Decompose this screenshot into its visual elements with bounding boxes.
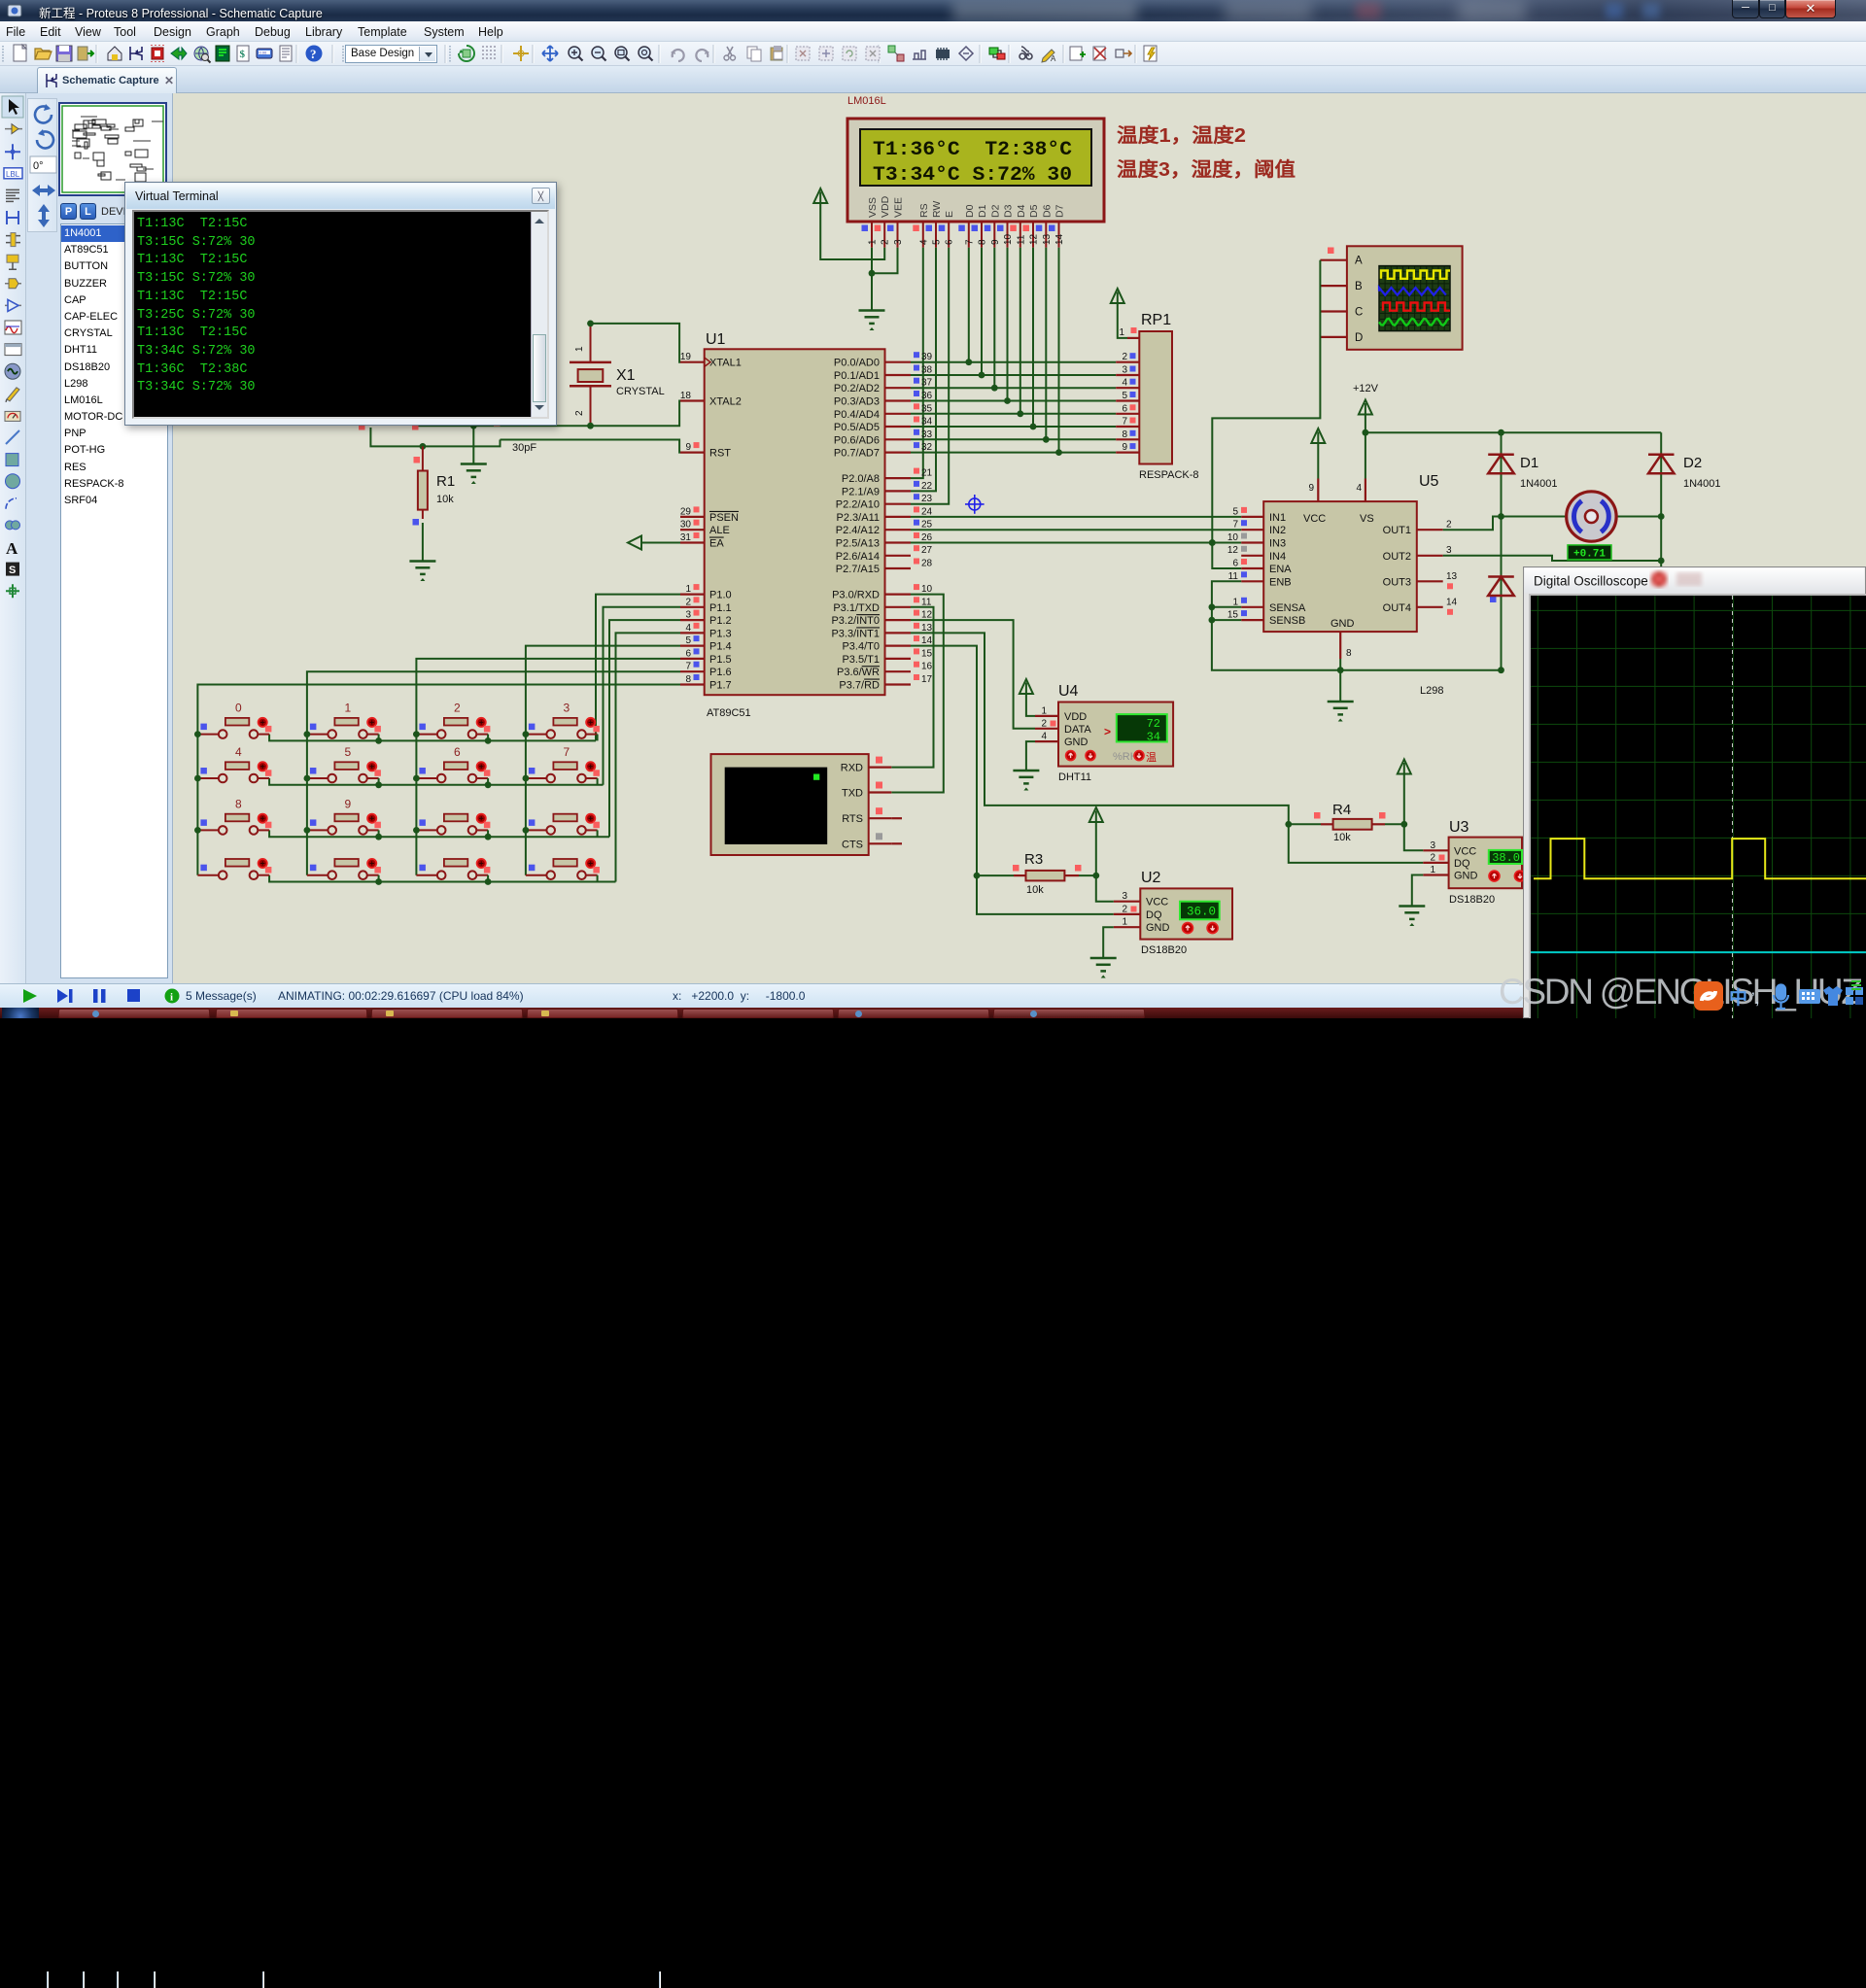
svg-text:D2: D2 — [1683, 455, 1702, 471]
svg-text:AT89C51: AT89C51 — [707, 707, 751, 719]
svg-text:GND: GND — [1146, 922, 1170, 934]
svg-text:VCC: VCC — [1146, 897, 1168, 908]
svg-text:RXD: RXD — [841, 763, 863, 774]
svg-text:P3.4/T0: P3.4/T0 — [842, 641, 880, 653]
svg-text:RS: RS — [918, 203, 930, 218]
svg-text:10: 10 — [1227, 532, 1239, 543]
svg-text:37: 37 — [921, 378, 933, 389]
svg-text:1: 1 — [685, 584, 691, 595]
svg-text:1: 1 — [868, 239, 879, 245]
svg-text:7: 7 — [564, 745, 570, 759]
svg-text:SENSA: SENSA — [1269, 602, 1306, 614]
svg-text:6: 6 — [1232, 559, 1238, 569]
svg-text:i: i — [170, 992, 173, 1004]
svg-text:35: 35 — [921, 403, 933, 414]
svg-text:’,: ’, — [1751, 989, 1760, 1008]
svg-text:VCC: VCC — [1303, 513, 1326, 525]
svg-text:10: 10 — [1003, 233, 1014, 245]
svg-text:11: 11 — [921, 597, 932, 607]
svg-text:P1.3: P1.3 — [709, 628, 732, 639]
svg-text:U4: U4 — [1058, 683, 1079, 700]
svg-text:15: 15 — [921, 648, 933, 659]
svg-text:P0.0/AD0: P0.0/AD0 — [834, 358, 880, 369]
svg-text:P0.2/AD2: P0.2/AD2 — [834, 383, 880, 394]
svg-text:OUT4: OUT4 — [1383, 602, 1411, 614]
svg-text:3: 3 — [1122, 891, 1127, 902]
svg-text:T3:34°C S:72% 30: T3:34°C S:72% 30 — [873, 164, 1072, 187]
svg-text:P2.1/A9: P2.1/A9 — [842, 486, 880, 497]
svg-text:P3.5/T1: P3.5/T1 — [842, 654, 880, 666]
svg-text:2: 2 — [454, 702, 461, 715]
svg-text:27: 27 — [921, 545, 933, 556]
svg-text:温度3，湿度，阈值: 温度3，湿度，阈值 — [1117, 157, 1296, 181]
svg-text:4: 4 — [235, 745, 242, 759]
svg-text:P1.2: P1.2 — [709, 615, 732, 627]
svg-text:2: 2 — [1446, 520, 1452, 531]
svg-text:T1:36°C T2:38°C: T1:36°C T2:38°C — [873, 139, 1072, 161]
svg-text:ENA: ENA — [1269, 564, 1292, 575]
svg-text:1: 1 — [1232, 597, 1238, 607]
svg-text:5: 5 — [345, 745, 352, 759]
svg-text:26: 26 — [921, 532, 933, 543]
svg-text:DHT11: DHT11 — [1058, 771, 1091, 783]
svg-text:L298: L298 — [1420, 685, 1443, 697]
svg-text:10: 10 — [921, 584, 933, 595]
svg-text:2: 2 — [1041, 718, 1047, 729]
svg-text:34: 34 — [921, 417, 933, 428]
svg-text:23: 23 — [921, 494, 933, 504]
svg-text:1: 1 — [1122, 917, 1127, 928]
svg-text:D7: D7 — [1054, 204, 1066, 218]
svg-text:LM016L: LM016L — [847, 95, 886, 107]
svg-text:IN3: IN3 — [1269, 538, 1286, 550]
svg-text:P2.5/A13: P2.5/A13 — [836, 538, 880, 550]
svg-text:2: 2 — [574, 410, 585, 416]
svg-text:0°: 0° — [33, 160, 44, 172]
svg-text:P2.2/A10: P2.2/A10 — [836, 499, 880, 511]
svg-text:C: C — [1355, 307, 1363, 319]
svg-text:LBL: LBL — [6, 170, 20, 179]
svg-text:A: A — [6, 539, 18, 558]
svg-text:17: 17 — [921, 674, 933, 685]
svg-text:38: 38 — [921, 365, 933, 376]
svg-text:VDD: VDD — [1064, 711, 1087, 723]
svg-text:P2.3/A11: P2.3/A11 — [837, 512, 880, 524]
svg-text:D4: D4 — [1016, 204, 1027, 218]
svg-text:8: 8 — [235, 797, 242, 810]
svg-text:VCC: VCC — [1454, 845, 1476, 857]
svg-text:30: 30 — [680, 520, 692, 531]
svg-text:2: 2 — [1122, 352, 1127, 362]
svg-text:P1.0: P1.0 — [709, 590, 732, 601]
svg-text:U2: U2 — [1141, 870, 1161, 886]
svg-text:D1: D1 — [1520, 455, 1538, 471]
svg-text:8: 8 — [685, 674, 691, 685]
svg-text:R4: R4 — [1332, 802, 1351, 818]
svg-text:P0.4/AD4: P0.4/AD4 — [834, 409, 880, 421]
svg-text:10k: 10k — [1026, 884, 1044, 896]
svg-text:P1.7: P1.7 — [709, 680, 732, 692]
svg-text:1: 1 — [574, 346, 585, 352]
svg-text:PSEN: PSEN — [709, 512, 739, 524]
svg-text:P0.7/AD7: P0.7/AD7 — [834, 448, 880, 460]
svg-text:VSS: VSS — [867, 197, 879, 218]
svg-text:P3.7/RD: P3.7/RD — [839, 680, 880, 692]
svg-text:$: $ — [240, 49, 246, 60]
svg-text:7: 7 — [685, 662, 691, 672]
svg-text:D1: D1 — [977, 204, 988, 218]
svg-text:D3: D3 — [1003, 204, 1015, 218]
svg-text:0.00: 0.00 — [259, 51, 268, 55]
svg-text:5: 5 — [1232, 506, 1238, 517]
svg-text:9: 9 — [990, 239, 1001, 245]
svg-text:VDD: VDD — [880, 195, 891, 218]
svg-text:SENSB: SENSB — [1269, 615, 1305, 627]
svg-text:?: ? — [310, 47, 317, 61]
svg-text:1: 1 — [1119, 327, 1124, 338]
svg-text:P3.2/INT0: P3.2/INT0 — [831, 615, 880, 627]
svg-text:12: 12 — [1029, 233, 1040, 245]
svg-text:1N4001: 1N4001 — [1683, 478, 1721, 490]
svg-text:3: 3 — [685, 610, 691, 621]
svg-text:25: 25 — [921, 520, 933, 531]
svg-text:39: 39 — [921, 352, 933, 362]
svg-text:6: 6 — [685, 648, 691, 659]
svg-text:RP1: RP1 — [1141, 312, 1171, 328]
svg-text:P0.3/AD3: P0.3/AD3 — [834, 396, 880, 408]
svg-text:1: 1 — [1430, 865, 1435, 875]
svg-text:2: 2 — [1122, 904, 1127, 914]
svg-text:Digital Oscilloscope: Digital Oscilloscope — [1534, 574, 1648, 589]
svg-text:OUT1: OUT1 — [1383, 525, 1411, 536]
svg-text:RST: RST — [709, 448, 731, 460]
svg-text:7: 7 — [1122, 417, 1127, 428]
svg-text:DS18B20: DS18B20 — [1449, 894, 1495, 906]
svg-text:D: D — [1355, 332, 1363, 344]
svg-text:P0.1/AD1: P0.1/AD1 — [834, 370, 880, 382]
svg-text:28: 28 — [921, 559, 933, 569]
svg-text:P3.1/TXD: P3.1/TXD — [833, 602, 880, 614]
svg-text:P1.5: P1.5 — [709, 654, 732, 666]
svg-text:10k: 10k — [1333, 832, 1351, 843]
svg-text:RTS: RTS — [842, 813, 863, 825]
svg-text:14: 14 — [1446, 597, 1458, 607]
svg-text:ENB: ENB — [1269, 576, 1292, 588]
svg-text:中: 中 — [1729, 986, 1747, 1009]
svg-text:2: 2 — [685, 597, 691, 607]
svg-text:3: 3 — [1122, 365, 1127, 376]
svg-text:3: 3 — [1446, 545, 1452, 556]
svg-text:21: 21 — [921, 468, 933, 479]
svg-text:4: 4 — [918, 239, 929, 245]
svg-text:38.0: 38.0 — [1492, 851, 1520, 865]
svg-text:12: 12 — [1227, 545, 1239, 556]
svg-text:8: 8 — [1346, 648, 1352, 659]
svg-text:24: 24 — [921, 506, 933, 517]
svg-text:3: 3 — [564, 702, 570, 715]
svg-text:DQ: DQ — [1146, 909, 1162, 921]
svg-text:P3.3/INT1: P3.3/INT1 — [831, 628, 880, 639]
svg-text:34: 34 — [1147, 731, 1160, 744]
svg-text:13: 13 — [1446, 571, 1458, 582]
svg-text:P3.6/WR: P3.6/WR — [837, 667, 880, 678]
svg-text:P2.6/A14: P2.6/A14 — [836, 551, 880, 563]
svg-text:CTS: CTS — [842, 839, 863, 850]
svg-text:TXD: TXD — [842, 788, 863, 800]
svg-text:P3.0/RXD: P3.0/RXD — [832, 590, 880, 601]
svg-text:31: 31 — [680, 532, 692, 543]
svg-text:36: 36 — [921, 391, 933, 401]
svg-text:XTAL1: XTAL1 — [709, 358, 742, 369]
svg-text:11: 11 — [1016, 234, 1026, 245]
svg-text:2: 2 — [881, 239, 891, 245]
svg-text:8: 8 — [978, 239, 988, 245]
svg-text:7: 7 — [964, 239, 975, 245]
svg-text:13: 13 — [921, 623, 933, 634]
svg-text:U1: U1 — [706, 331, 726, 348]
svg-text:GND: GND — [1330, 618, 1355, 630]
svg-text:4: 4 — [685, 623, 691, 634]
svg-text:OUT3: OUT3 — [1383, 576, 1411, 588]
svg-text:5: 5 — [685, 635, 691, 646]
svg-text:4: 4 — [1356, 483, 1362, 494]
svg-text:GND: GND — [1454, 871, 1478, 882]
svg-text:S: S — [9, 565, 16, 576]
svg-text:D2: D2 — [989, 204, 1001, 218]
svg-text:温: 温 — [1146, 751, 1157, 764]
svg-text:29: 29 — [680, 506, 692, 517]
svg-text:DATA: DATA — [1064, 724, 1091, 736]
svg-text:8: 8 — [1122, 429, 1127, 440]
svg-text:R3: R3 — [1024, 851, 1043, 868]
svg-text:RESPACK-8: RESPACK-8 — [1139, 469, 1199, 481]
svg-text:9: 9 — [685, 442, 691, 453]
svg-text:P0.6/AD6: P0.6/AD6 — [834, 434, 880, 446]
svg-text:5: 5 — [932, 239, 943, 245]
svg-text:14: 14 — [1054, 233, 1065, 245]
svg-text:IN1: IN1 — [1269, 512, 1286, 524]
svg-text:4: 4 — [1041, 732, 1047, 742]
svg-text:+0.71: +0.71 — [1573, 549, 1606, 561]
svg-text:B: B — [1355, 281, 1363, 292]
svg-text:DQ: DQ — [1454, 858, 1470, 870]
svg-text:12: 12 — [921, 610, 933, 621]
svg-text:2: 2 — [1430, 852, 1435, 863]
svg-text:DS18B20: DS18B20 — [1141, 944, 1187, 956]
svg-text:IN4: IN4 — [1269, 551, 1286, 563]
svg-text:16: 16 — [921, 662, 933, 672]
svg-text:+12V: +12V — [1353, 383, 1379, 394]
svg-text:22: 22 — [921, 481, 933, 492]
svg-text:3: 3 — [1430, 840, 1435, 851]
svg-text:1: 1 — [345, 702, 352, 715]
svg-text:5: 5 — [1122, 391, 1127, 401]
svg-text:U5: U5 — [1419, 473, 1439, 490]
svg-text:15: 15 — [1227, 610, 1239, 621]
svg-text:4: 4 — [1122, 378, 1127, 389]
svg-text:13: 13 — [1042, 233, 1053, 245]
svg-text:1: 1 — [1041, 705, 1047, 716]
svg-text:19: 19 — [680, 352, 692, 362]
svg-text:GND: GND — [1064, 737, 1088, 748]
svg-text:7: 7 — [1232, 520, 1238, 531]
svg-text:P1.1: P1.1 — [709, 602, 732, 614]
svg-text:3: 3 — [893, 239, 904, 245]
svg-text:D5: D5 — [1028, 204, 1040, 218]
svg-text:6: 6 — [454, 745, 461, 759]
svg-text:A: A — [1051, 54, 1056, 63]
svg-text:36.0: 36.0 — [1187, 906, 1216, 919]
svg-text:XTAL2: XTAL2 — [709, 396, 742, 408]
svg-text:1N4001: 1N4001 — [1520, 478, 1558, 490]
svg-text:11: 11 — [1228, 571, 1239, 582]
svg-text:P2.0/A8: P2.0/A8 — [842, 473, 880, 485]
svg-text:14: 14 — [921, 635, 933, 646]
svg-text:CRYSTAL: CRYSTAL — [616, 386, 665, 397]
svg-text:X1: X1 — [616, 367, 636, 384]
svg-text:P2.7/A15: P2.7/A15 — [836, 564, 880, 575]
svg-text:33: 33 — [921, 429, 933, 440]
svg-text:9: 9 — [1308, 483, 1314, 494]
svg-text:OUT2: OUT2 — [1383, 551, 1411, 563]
svg-text:>: > — [1104, 725, 1111, 738]
svg-text:E: E — [944, 211, 955, 218]
svg-text:P1.4: P1.4 — [709, 641, 732, 653]
svg-text:0: 0 — [235, 702, 242, 715]
svg-text:D6: D6 — [1041, 204, 1053, 218]
svg-text:R1: R1 — [436, 473, 455, 490]
svg-text:6: 6 — [945, 239, 955, 245]
svg-text:EA: EA — [709, 538, 724, 550]
svg-text:P1.6: P1.6 — [709, 667, 732, 678]
svg-text:VS: VS — [1360, 513, 1374, 525]
svg-text:6: 6 — [1122, 403, 1127, 414]
svg-text:P2.4/A12: P2.4/A12 — [836, 525, 880, 536]
svg-text:9: 9 — [345, 797, 352, 810]
svg-text:30pF: 30pF — [512, 442, 536, 454]
svg-text:A: A — [1355, 256, 1363, 267]
svg-text:VEE: VEE — [893, 197, 905, 218]
svg-text:9: 9 — [1122, 442, 1127, 453]
svg-text:ALE: ALE — [709, 525, 730, 536]
svg-text:D0: D0 — [964, 204, 976, 218]
svg-text:U3: U3 — [1449, 819, 1469, 836]
svg-text:72: 72 — [1147, 717, 1160, 731]
svg-text:32: 32 — [921, 442, 933, 453]
svg-text:10k: 10k — [436, 494, 454, 505]
svg-text:IN2: IN2 — [1269, 525, 1286, 536]
svg-text:P0.5/AD5: P0.5/AD5 — [834, 422, 880, 433]
svg-text:18: 18 — [680, 391, 692, 401]
svg-text:温度1，温度2: 温度1，温度2 — [1117, 123, 1246, 147]
svg-text:RW: RW — [931, 201, 943, 218]
